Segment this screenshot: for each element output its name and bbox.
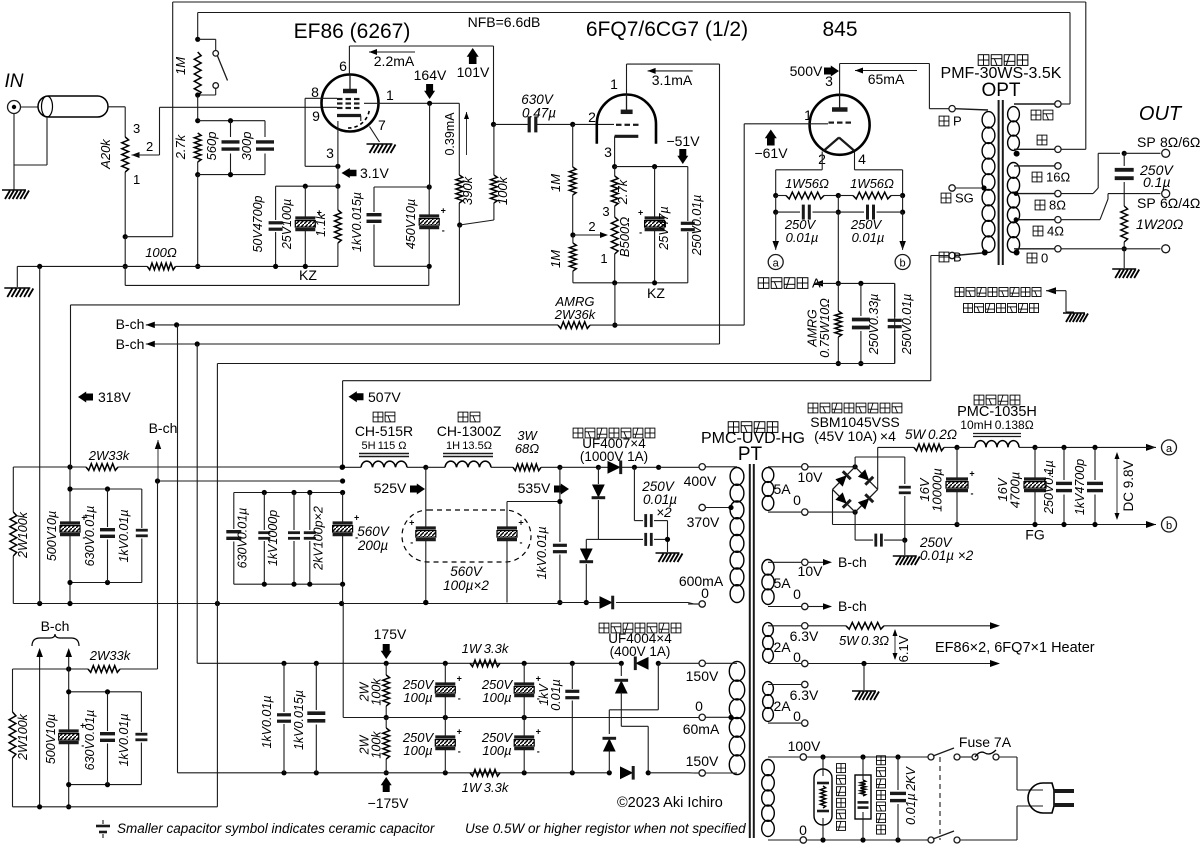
svg-text:560V: 560V — [450, 564, 484, 579]
svg-text:Smaller capacitor symbol indic: Smaller capacitor symbol indicates ceram… — [117, 821, 435, 836]
svg-text:DC 9.8V: DC 9.8V — [1121, 460, 1136, 511]
annotation -175V — [381, 777, 392, 792]
label UF4007 — [573, 428, 583, 438]
svg-text:+: + — [536, 674, 541, 684]
svg-text:2: 2 — [588, 109, 596, 125]
svg-text:175V: 175V — [374, 626, 407, 642]
annotation 507V — [349, 391, 364, 402]
label UF4004 — [599, 623, 609, 633]
resistor 2.7k (NFB divider) — [194, 133, 201, 162]
svg-text:0: 0 — [793, 649, 801, 665]
capacitor 1kV4700p (DC) — [1094, 447, 1096, 480]
845 grid — [829, 121, 835, 123]
wire B-ch feed rail y481 — [158, 480, 343, 482]
svg-text:B-ch: B-ch — [116, 316, 145, 332]
svg-text:B-ch: B-ch — [41, 618, 70, 634]
annotation 3.1V — [342, 168, 357, 178]
svg-text:450V10µ: 450V10µ — [404, 199, 418, 249]
wire EF86 cathode down — [337, 121, 339, 186]
capacitor 250V0.1u (DC) — [1063, 447, 1065, 480]
OPT core — [998, 100, 1000, 265]
svg-text:100µ×2: 100µ×2 — [443, 578, 489, 593]
6FQ7 grid — [616, 124, 622, 126]
svg-text:300p: 300p — [239, 132, 254, 161]
svg-text:1kV0.01µ: 1kV0.01µ — [117, 509, 131, 562]
svg-text:©2023 Aki Ichiro: ©2023 Aki Ichiro — [617, 795, 723, 811]
svg-text:Use 0.5W or higher registor wh: Use 0.5W or higher registor when not spe… — [465, 821, 746, 836]
ground (EF86 pin7) — [367, 144, 396, 153]
wire EF86 plate loop — [348, 46, 350, 75]
wire bias mid rail y717.5 — [342, 604, 344, 718]
resistor 5W0.3ohm (heater) — [808, 625, 846, 627]
svg-text:−51V: −51V — [666, 133, 700, 149]
resistor 2W100k (bottom left) — [12, 669, 14, 712]
svg-text:1.1k: 1.1k — [314, 212, 328, 236]
svg-text:2W100k: 2W100k — [16, 511, 30, 559]
wire B-ch heater B — [808, 606, 824, 608]
svg-text:-: - — [458, 747, 461, 757]
annotation 3.1mA — [648, 70, 693, 72]
svg-text:1: 1 — [610, 76, 618, 92]
wire to 6FQ7 grid — [573, 123, 614, 125]
svg-text:3: 3 — [602, 204, 609, 219]
diode UF4004 D4 — [620, 766, 633, 779]
wire AC top rail — [807, 756, 927, 758]
svg-text:630V0.01µ: 630V0.01µ — [83, 710, 97, 771]
capacitor 250V0.01u (-51V) — [687, 167, 689, 221]
terminal 黒0 — [1055, 246, 1061, 252]
svg-text:b: b — [1166, 520, 1172, 532]
PT secondary 100V — [762, 760, 775, 776]
resistor 1W3.3k (top) — [470, 660, 500, 667]
capacitor 0.01u 2KV (AC) — [897, 757, 899, 790]
resistor 2W100k (bias lower) — [383, 728, 390, 759]
wire 2W33k rail y467 — [13, 466, 86, 468]
svg-text:OPT: OPT — [981, 80, 1020, 101]
node 測定端子A — [758, 278, 769, 289]
svg-text:+: + — [536, 727, 541, 737]
svg-text:100Ω: 100Ω — [145, 245, 177, 260]
annotation 0.39mA — [466, 112, 468, 155]
svg-text:a: a — [773, 258, 780, 270]
OPT primary winding — [982, 112, 995, 128]
potentiometer B500 — [614, 206, 616, 217]
terminal SP8/6 — [1162, 149, 1170, 157]
6FQ7 plate — [621, 110, 633, 115]
svg-text:B-ch: B-ch — [149, 420, 178, 436]
wire filament CT down — [837, 212, 839, 283]
wire measurement ground rail — [220, 363, 895, 365]
wire 2.7k bottom to ground rail — [197, 175, 199, 267]
svg-text:-: - — [971, 489, 974, 499]
capacitor 560p — [230, 121, 232, 137]
svg-text:1kV0.01µ: 1kV0.01µ — [260, 695, 274, 748]
svg-text:1: 1 — [386, 87, 394, 103]
RCA jack — [8, 101, 21, 114]
svg-text:16Ω: 16Ω — [1046, 169, 1070, 184]
svg-text:B-ch: B-ch — [838, 598, 867, 614]
capacitor 250V0.33u — [860, 283, 862, 316]
svg-text:P: P — [953, 113, 962, 128]
PT secondary 6.3V B — [763, 682, 774, 696]
capacitor 630V 0.47u (coupling) — [494, 123, 529, 125]
svg-text:B-ch: B-ch — [116, 336, 145, 352]
terminal 緑 — [1055, 146, 1061, 152]
annotation DC 9.8V — [1116, 455, 1118, 517]
svg-text:+: + — [457, 727, 462, 737]
svg-text:2.2mA: 2.2mA — [374, 53, 415, 69]
wire NFB bus y305 — [71, 304, 460, 306]
svg-text:1W56Ω: 1W56Ω — [850, 176, 894, 191]
svg-text:250V0.1µ: 250V0.1µ — [1042, 460, 1056, 515]
wire lower 2W33k rail y669 — [13, 668, 89, 670]
svg-text:500V: 500V — [790, 63, 823, 79]
svg-text:2W36k: 2W36k — [554, 307, 597, 322]
svg-text:1M: 1M — [548, 250, 563, 268]
svg-text:1W56Ω: 1W56Ω — [785, 176, 829, 191]
choke CH-515R — [373, 412, 383, 422]
capacitor 250V100u (LR) — [523, 718, 525, 738]
svg-text:6.3V: 6.3V — [790, 628, 819, 644]
diode UF4004 D1 — [635, 657, 648, 670]
svg-text:50V4700p: 50V4700p — [251, 195, 265, 252]
svg-text:6Ω/4Ω: 6Ω/4Ω — [1160, 195, 1200, 211]
terminal 赤P — [949, 106, 955, 112]
terminal 橙SG — [949, 185, 955, 191]
PT LV terminals — [699, 660, 705, 666]
svg-text:0: 0 — [793, 708, 801, 724]
capacitor 250V0.1u (zobel) — [1123, 153, 1125, 166]
ground (input jack) — [2, 190, 29, 199]
OPT secondary winding B — [1007, 163, 1019, 179]
node b (DC out) — [1162, 517, 1177, 532]
svg-text:b: b — [900, 258, 906, 270]
svg-text:560p: 560p — [204, 132, 219, 161]
wire 845 plate loop — [839, 64, 841, 95]
wire bottom rail y603 — [13, 603, 560, 605]
ground (bridge) — [893, 556, 920, 565]
svg-text:10V: 10V — [798, 469, 824, 485]
capacitor 1kV0.01u (damper) — [559, 467, 561, 542]
resistor 1W20ohm (zobel) — [1121, 206, 1128, 242]
terminal 白4 — [1055, 217, 1061, 223]
svg-text:+: + — [441, 206, 446, 216]
svg-text:-: - — [537, 747, 540, 757]
spark killer — [855, 775, 871, 819]
terminal 青16 — [1055, 163, 1061, 169]
svg-text:-: - — [355, 533, 358, 543]
svg-text:2kV100p×2: 2kV100p×2 — [312, 506, 326, 571]
svg-text:×2: ×2 — [656, 505, 672, 520]
transformer OPT label — [978, 55, 989, 66]
switch AC (lower) — [928, 837, 934, 843]
EF86 cathode — [337, 114, 361, 117]
capacitor 1kV0.01u (bias left) — [283, 663, 285, 712]
wire left vert x39.7 — [39, 266, 41, 603]
svg-text:250V0.33µ: 250V0.33µ — [867, 294, 881, 356]
svg-text:101V: 101V — [457, 64, 490, 80]
wire outer NFB loop top — [173, 1, 1086, 3]
svg-text:1kV0.015µ: 1kV0.015µ — [350, 192, 364, 252]
wire B-ch line 1 (845 grid bias) — [146, 324, 558, 326]
PT HV terminals — [699, 464, 705, 470]
resistor 2.7k (6FQ7 cathode) — [614, 167, 616, 176]
svg-text:A20k: A20k — [98, 138, 113, 170]
wire B+ 507V line — [343, 380, 931, 382]
svg-text:25V47µ: 25V47µ — [657, 206, 671, 250]
EF86 grids — [337, 98, 343, 100]
wire input to pot — [108, 106, 125, 108]
capacitor 560V200u — [342, 493, 344, 524]
svg-text:3: 3 — [133, 121, 140, 136]
svg-text:+: + — [518, 518, 523, 528]
svg-text:+: + — [354, 513, 359, 523]
wire KZ bus — [124, 266, 126, 285]
svg-text:8: 8 — [311, 84, 319, 100]
svg-text:370V: 370V — [687, 514, 720, 530]
svg-text:2A: 2A — [773, 639, 791, 655]
svg-text:B-ch: B-ch — [838, 554, 867, 570]
annotation 6.1V — [894, 630, 896, 659]
diode UF4004 D3 — [657, 663, 659, 710]
svg-text:CH-515R: CH-515R — [355, 423, 413, 439]
terminal 茶B — [949, 252, 955, 258]
svg-text:507V: 507V — [368, 389, 401, 405]
PT core — [749, 464, 751, 838]
svg-text:0.01µ ×2: 0.01µ ×2 — [920, 548, 974, 563]
svg-text:68Ω: 68Ω — [515, 441, 539, 456]
wire 10V to bridge — [808, 466, 855, 468]
tube 845 V3 — [810, 95, 870, 155]
wire 560V bank top rail — [234, 492, 343, 494]
capacitor 250V100u (LL) — [444, 718, 446, 738]
choke PMC-1035H — [974, 395, 984, 405]
svg-text:1kV1000p: 1kV1000p — [266, 510, 280, 566]
capacitor 1kV1000p (bank2) — [263, 493, 265, 531]
wire left bias vertical x70 — [70, 305, 72, 467]
wire bias top rail y663 — [196, 344, 198, 663]
svg-text:4700µ: 4700µ — [1008, 472, 1023, 508]
svg-text:250V0.01µ: 250V0.01µ — [900, 294, 914, 356]
svg-text:0.01µ: 0.01µ — [549, 679, 563, 711]
svg-text:0.1µ: 0.1µ — [1143, 174, 1171, 190]
wire b rail — [957, 524, 1117, 526]
svg-text:0: 0 — [695, 698, 703, 714]
wire EF86 pin8 (g3) to cathode — [305, 97, 337, 99]
wire EF86 pin7 to ground — [370, 127, 380, 143]
svg-text:8Ω: 8Ω — [1049, 197, 1066, 212]
node a (DC out) — [1162, 440, 1177, 455]
svg-text:100k: 100k — [370, 678, 384, 706]
svg-text:EF86 (6267): EF86 (6267) — [294, 20, 411, 43]
node a (845 cathode left) — [775, 212, 777, 242]
label schottky — [808, 403, 818, 413]
svg-text:3: 3 — [604, 144, 612, 160]
svg-text:6FQ7/6CG7 (1/2): 6FQ7/6CG7 (1/2) — [586, 18, 748, 41]
capacitor 1kV0.015u — [373, 187, 375, 212]
capacitor 2kV100p x2 (bank2) — [293, 493, 295, 531]
resistor 1W3.3k (bottom) — [470, 769, 500, 776]
svg-text:65mA: 65mA — [868, 71, 905, 87]
svg-text:2W33k: 2W33k — [89, 648, 132, 663]
svg-text:Fuse 7A: Fuse 7A — [959, 734, 1012, 750]
svg-text:5W 0.3Ω: 5W 0.3Ω — [839, 633, 889, 648]
svg-text:3.1V: 3.1V — [360, 165, 389, 181]
bridge AC caps 250V0.01u x2 — [854, 457, 856, 467]
terminal 灰8 — [1055, 190, 1061, 196]
capacitor 50V4700p — [275, 186, 277, 220]
svg-text:3: 3 — [326, 145, 334, 161]
svg-text:−175V: −175V — [368, 795, 410, 811]
resistor 390k — [458, 103, 460, 175]
svg-text:0.01µ: 0.01µ — [852, 230, 885, 245]
diode UF4007 D2 — [597, 467, 599, 484]
svg-text:0: 0 — [701, 585, 709, 601]
wire jack ground — [13, 114, 15, 191]
wire bias bottom rail y772.8 — [177, 325, 179, 773]
svg-text:1W20Ω: 1W20Ω — [1136, 216, 1184, 232]
capacitor 630V0.01u (bank3) — [107, 692, 109, 731]
resistor 1M (6FQ7 grid upper) — [572, 124, 574, 167]
845 plate — [832, 107, 848, 112]
capacitor 1kV0.01u (bias right) — [571, 663, 573, 689]
svg-text:630V0.01µ: 630V0.01µ — [83, 506, 97, 567]
svg-text:CH-1300Z: CH-1300Z — [437, 423, 502, 439]
svg-text:0: 0 — [799, 822, 807, 838]
svg-text:10000µ: 10000µ — [930, 468, 945, 512]
wire EF86 screen line (pin1) — [364, 102, 459, 104]
wire 845 filament pin2 — [821, 152, 823, 170]
svg-text:-: - — [410, 538, 413, 548]
svg-text:1M: 1M — [548, 174, 563, 192]
capacitor 16V10000u — [956, 447, 958, 479]
svg-text:150V: 150V — [686, 753, 719, 769]
6FQ7 cathode — [615, 135, 639, 138]
svg-text:1: 1 — [600, 251, 607, 266]
svg-text:(45V 10A) ×4: (45V 10A) ×4 — [814, 428, 896, 444]
resistor 100ohm — [147, 263, 175, 270]
svg-text:525V: 525V — [374, 480, 407, 496]
annotation -61V — [765, 130, 777, 146]
svg-text:400V: 400V — [684, 473, 717, 489]
ground (A/B measure) — [1063, 313, 1088, 322]
capacitor 1kV0.01u (bank1) — [141, 489, 143, 528]
svg-text:+: + — [409, 518, 414, 528]
diode UF4007 D1 — [560, 466, 599, 468]
svg-text:500V10µ: 500V10µ — [44, 714, 58, 764]
switch (NFB defeat) — [198, 38, 216, 40]
ground (speaker) — [1112, 269, 1139, 278]
wire zobel ground — [1123, 249, 1125, 268]
svg-text:−61V: −61V — [754, 145, 788, 161]
bank1 inner rails — [70, 488, 142, 490]
wire cathode network top rail — [276, 185, 338, 187]
svg-text:7: 7 — [378, 117, 386, 133]
svg-text:2W33k: 2W33k — [88, 448, 131, 463]
svg-text:B: B — [953, 249, 962, 264]
svg-text:100k: 100k — [370, 731, 384, 759]
svg-text:1W 3.3k: 1W 3.3k — [462, 780, 510, 795]
capacitor 250V0.01u (left) — [776, 211, 800, 213]
capacitor 300p — [264, 121, 266, 137]
tube EF86 V1 — [322, 75, 379, 132]
annotation 318V — [78, 392, 93, 403]
wire a rail — [1035, 446, 1117, 448]
svg-text:10mH 0.138Ω: 10mH 0.138Ω — [960, 418, 1033, 432]
svg-text:25V100µ: 25V100µ — [280, 199, 294, 250]
svg-text:2.7k: 2.7k — [173, 133, 188, 160]
svg-text:2: 2 — [588, 219, 595, 234]
svg-text:-: - — [458, 694, 461, 704]
wire screen bypass rail — [374, 186, 429, 188]
resistor 1.1k — [337, 186, 339, 210]
diode UF4007 D4 (bottom rail) — [560, 602, 600, 604]
svg-text:0.01µ 2KV: 0.01µ 2KV — [904, 766, 918, 825]
wire AC bottom rail — [807, 839, 927, 841]
wiper A20k — [132, 152, 140, 158]
svg-text:1kV4700p: 1kV4700p — [1073, 459, 1087, 515]
wire bridge - to b rail — [832, 489, 834, 524]
svg-text:2: 2 — [146, 139, 153, 154]
neon lamp — [814, 769, 832, 825]
svg-text:100µ: 100µ — [482, 743, 511, 758]
svg-text:+: + — [457, 674, 462, 684]
PT primary HV winding — [730, 468, 744, 486]
svg-text:560V: 560V — [357, 524, 391, 539]
capacitor 250V100u (UL) — [444, 663, 446, 684]
node b (845 cathode right) — [902, 212, 904, 242]
capacitor 16V4700u — [1034, 447, 1036, 479]
capacitor 630V0.01u (bank2) — [233, 493, 235, 530]
svg-text:KZ: KZ — [299, 267, 317, 283]
wire cathode rail — [615, 166, 688, 168]
ground (rectifier) — [656, 553, 683, 562]
PT secondary 10V B — [762, 560, 774, 576]
wire 560p/300p bottom rail — [198, 174, 265, 176]
svg-text:100V: 100V — [788, 738, 821, 754]
svg-text:5A: 5A — [773, 575, 791, 591]
wire bottom rail y806.8 — [13, 806, 218, 808]
svg-text:9: 9 — [312, 108, 320, 124]
capacitor 450V10u — [428, 187, 430, 216]
PT primary LV winding — [729, 661, 744, 681]
capacitor 1kV0.01u (bank3) — [140, 692, 142, 732]
svg-text:250V0.01µ: 250V0.01µ — [690, 195, 704, 257]
wire 1M bottom to 2.7k — [197, 96, 199, 121]
EF86 plate — [343, 89, 357, 94]
svg-text:6.3V: 6.3V — [790, 687, 819, 703]
choke CH-1300Z — [458, 412, 468, 422]
svg-text:6.1V: 6.1V — [896, 635, 911, 662]
svg-text:100µ: 100µ — [403, 743, 432, 758]
svg-text:200µ: 200µ — [357, 538, 389, 553]
svg-text:EF86×2, 6FQ7×1 Heater: EF86×2, 6FQ7×1 Heater — [935, 640, 1095, 656]
annotation 2.2mA — [369, 51, 415, 53]
wire 0 line — [1061, 248, 1124, 250]
svg-text:1H 13.5Ω: 1H 13.5Ω — [446, 440, 492, 452]
resistor 1M (6FQ7 grid lower) — [570, 243, 577, 271]
capacitor 630V0.01u (bank1) — [107, 489, 109, 527]
wire 525V node vertical — [342, 381, 344, 468]
svg-text:1kV0.01µ: 1kV0.01µ — [117, 713, 131, 766]
wire hum cap rail — [775, 196, 777, 213]
svg-text:SP: SP — [1137, 195, 1156, 211]
svg-text:-: - — [520, 538, 523, 548]
svg-text:PT: PT — [738, 444, 763, 465]
svg-text:NFB=6.6dB: NFB=6.6dB — [468, 14, 541, 30]
capacitor 1kV0.015u (bias left2) — [315, 663, 317, 710]
note ceramic capacitor — [96, 825, 110, 828]
